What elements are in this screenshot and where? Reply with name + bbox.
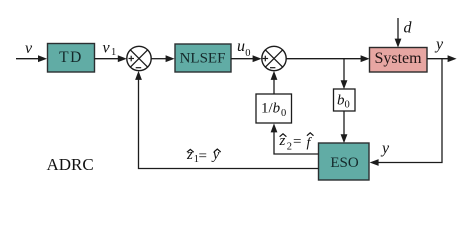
block b0: [334, 89, 356, 111]
svg-text:=: =: [199, 148, 207, 164]
wire branch from main line down into b0: [341, 59, 348, 89]
node z1hat = yhat label: [186, 147, 221, 165]
svg-text:ESO: ESO: [330, 155, 359, 171]
block System: [370, 48, 428, 73]
wire TD to summing junction 1: [95, 55, 127, 62]
svg-text:TD: TD: [59, 49, 83, 66]
svg-text:ADRC: ADRC: [47, 155, 94, 174]
summing junction 1: [127, 46, 151, 70]
wire NLSEF to summing junction 2: [231, 55, 262, 62]
svg-text:0: 0: [281, 108, 286, 119]
wire b0 down into ESO top: [341, 111, 348, 143]
svg-text:v: v: [25, 40, 33, 57]
wire disturbance d arrow into System top: [395, 18, 402, 48]
svg-text:u: u: [237, 38, 245, 55]
svg-text:z: z: [186, 147, 193, 163]
block TD: [48, 44, 95, 73]
summing junction 2: [262, 46, 286, 70]
svg-text:0: 0: [345, 100, 350, 111]
wire ESO z1 output: left along bottom then up into summing junction 1 bottom (minus): [135, 71, 318, 169]
wire feedback branch from y down and left into ESO right: [370, 59, 442, 166]
node z2hat = fhat label: [279, 133, 314, 153]
block 1/b0: [256, 94, 292, 123]
svg-text:v: v: [103, 40, 111, 57]
wire summing junction 2 to System (with branch node to b0): [286, 55, 369, 62]
svg-text:1/b: 1/b: [261, 101, 281, 117]
svg-text:y: y: [434, 36, 444, 53]
block NLSEF: [175, 44, 231, 72]
wire System output y arrow: [427, 55, 457, 62]
svg-text:0: 0: [245, 48, 250, 59]
svg-text:y: y: [211, 147, 220, 163]
svg-text:d: d: [404, 20, 413, 37]
svg-text:System: System: [374, 50, 422, 67]
svg-text:1: 1: [111, 47, 116, 58]
wire 1/b0 up into summing junction 2 bottom (minus): [271, 71, 278, 94]
svg-text:NLSEF: NLSEF: [180, 51, 226, 67]
block ESO: [319, 143, 370, 180]
svg-text:=: =: [293, 134, 301, 150]
wire ESO z2 output: left then up into 1/b0: [271, 123, 319, 154]
svg-text:y: y: [380, 140, 390, 157]
wire summing junction 1 to NLSEF: [151, 55, 174, 62]
svg-text:2: 2: [287, 141, 292, 152]
wire input v arrow into TD: [16, 55, 47, 62]
